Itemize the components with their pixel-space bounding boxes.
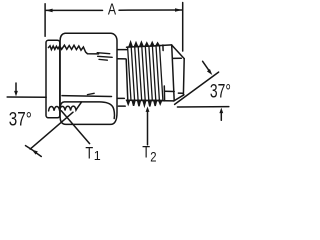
svg-text:A: A — [108, 2, 117, 19]
svg-text:37°: 37° — [9, 109, 32, 131]
svg-text:1: 1 — [94, 149, 101, 163]
svg-text:2: 2 — [150, 148, 156, 164]
svg-text:37°: 37° — [210, 81, 231, 103]
svg-text:T: T — [142, 143, 150, 162]
svg-text:T: T — [85, 143, 93, 162]
